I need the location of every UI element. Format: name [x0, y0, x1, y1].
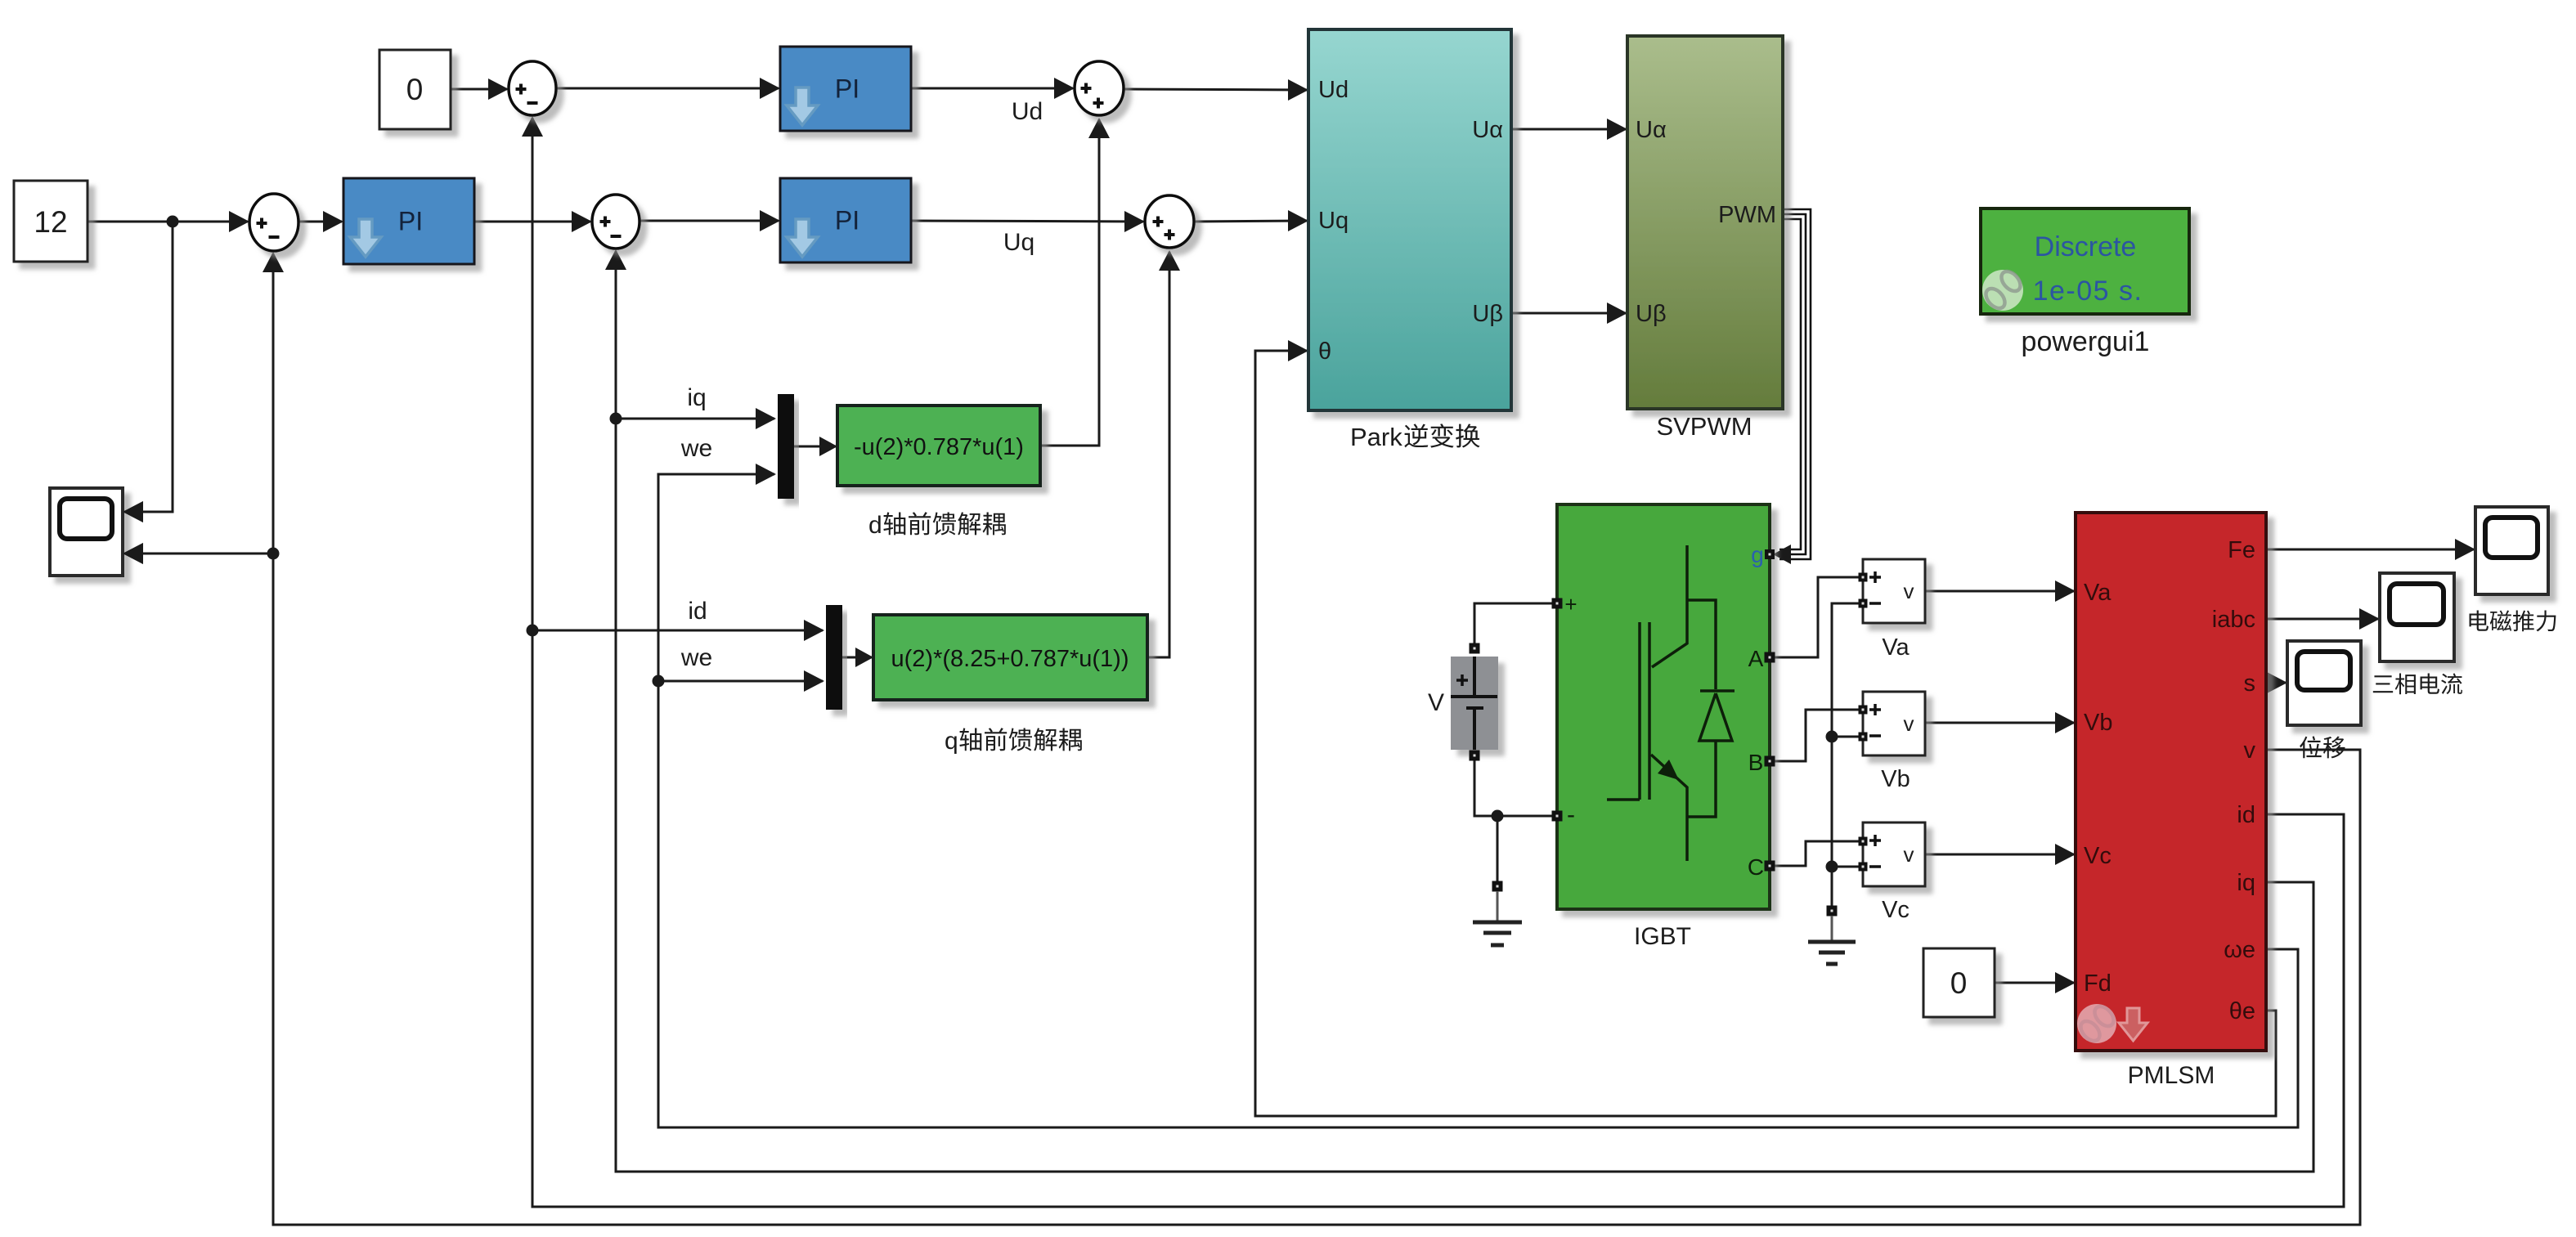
svg-text:Vb: Vb [2084, 710, 2112, 736]
wire: reference to scope input 1 [124, 222, 173, 512]
port IGBT plus [1552, 598, 1563, 609]
wire: IGBT phase C to Vc plus [1770, 841, 1860, 866]
port battery plus [1470, 643, 1480, 654]
svg-text:ωe: ωe [2224, 937, 2255, 963]
wire: Vb output to PMLSM Vb [1925, 722, 2074, 724]
svg-text:q: q [945, 728, 958, 755]
svg-text:v: v [1904, 711, 1914, 736]
scope three-phase current [2380, 573, 2454, 661]
constant block 0 (id reference) [379, 50, 451, 129]
powergui block [1981, 208, 2189, 314]
svg-text:iq: iq [2237, 870, 2255, 896]
wire: q-decoupling Fcn to sum Uq [1147, 252, 1169, 657]
sum iq loop [592, 195, 640, 249]
PMLSM motor block [2076, 513, 2266, 1051]
voltage measurement Va [1863, 559, 1925, 623]
svg-text:0: 0 [1950, 966, 1968, 1000]
wire: Vc output to PMLSM Vc [1925, 854, 2074, 856]
wire: PMLSM Fe to scope [2266, 549, 2474, 551]
wire: v speed feedback loop [273, 253, 2360, 1225]
port Vb plus [1859, 706, 1868, 715]
svg-text:A: A [1748, 646, 1764, 671]
svg-text:Vc: Vc [2084, 843, 2112, 869]
node: junction rail at Vb minus [1826, 731, 1838, 743]
label displacement scope [2300, 736, 2345, 758]
wire: sum Uq to Park Uq input [1194, 221, 1307, 222]
wire: id to mux M2 input 1 [532, 630, 823, 632]
DC voltage source V [1451, 657, 1498, 750]
wire: rail to Vb minus [1832, 736, 1860, 738]
node: junction rail at Vc minus [1826, 861, 1838, 873]
sum Ud (decoupling add) [1075, 61, 1124, 115]
svg-text:V: V [1428, 689, 1444, 716]
svg-text:1e-05 s.: 1e-05 s. [2033, 276, 2143, 307]
PI controller d-axis [780, 47, 911, 131]
svg-text:Uβ: Uβ [1636, 301, 1667, 327]
wire: mux M1 to d-decoupling Fcn [794, 446, 836, 448]
wire: Park Ualpha to SVPWM [1511, 128, 1626, 131]
svg-text:0: 0 [406, 73, 424, 106]
sum Uq (decoupling add) [1145, 195, 1194, 248]
svg-text:g: g [1751, 542, 1764, 567]
port Vc minus [1859, 863, 1868, 872]
ground G1 (battery) [1492, 881, 1503, 892]
svg-text:Uq: Uq [1318, 208, 1349, 234]
svg-text:θe: θe [2229, 998, 2255, 1024]
svg-text:iabc: iabc [2212, 607, 2255, 633]
svg-text:12: 12 [34, 205, 67, 239]
wire: we feedback loop [658, 474, 2298, 1127]
wire: speed sum to PI speed [298, 221, 342, 223]
svg-text:Fe: Fe [2228, 537, 2255, 563]
ground G2 (measurement rail) [1827, 906, 1838, 917]
port Va plus [1859, 573, 1868, 582]
PI controller speed [343, 178, 474, 264]
svg-text:Uβ: Uβ [1472, 301, 1503, 327]
subsystem Park inverse transform [1308, 29, 1511, 410]
voltage measurement Vc [1863, 822, 1925, 886]
wire: PWM bus SVPWM to IGBT gate [1779, 209, 1811, 559]
svg-text:Discrete: Discrete [2035, 231, 2137, 262]
wire: Va minus to measurement ground rail [1832, 603, 1860, 908]
svg-text:SVPWM: SVPWM [1656, 412, 1752, 441]
Fcn block d-axis decoupling [837, 406, 1040, 486]
svg-text:Va: Va [1882, 634, 1910, 661]
wire: sum iq to PI q-axis [640, 220, 779, 222]
node: junction on reference wire [167, 216, 179, 228]
svg-text:we: we [680, 435, 712, 462]
svg-text:Vb: Vb [1881, 766, 1910, 792]
svg-text:d: d [868, 512, 882, 539]
mux M2 (id,we) [826, 605, 842, 710]
wire: constant 12 to speed sum [88, 221, 248, 223]
svg-text:C: C [1748, 854, 1764, 880]
svg-text:+: + [1564, 592, 1577, 616]
wire: Va output to PMLSM Va [1925, 590, 2074, 593]
scope speed (left) [50, 488, 123, 576]
label three-phase current scope [2373, 673, 2462, 694]
wire: sum U1 to PI d-axis [556, 87, 779, 90]
wire: rail to Vc minus [1832, 866, 1860, 868]
port Va minus [1859, 599, 1868, 608]
svg-text:PI: PI [398, 207, 423, 236]
svg-text:Ud: Ud [1318, 77, 1349, 103]
node: junction battery minus to ground [1492, 810, 1504, 822]
port Vb minus [1859, 733, 1868, 742]
svg-text:Fd: Fd [2084, 970, 2112, 997]
svg-text:we: we [680, 644, 712, 671]
svg-text:B: B [1748, 750, 1764, 775]
subsystem SVPWM [1627, 36, 1783, 409]
node: junction v feedback to scope [267, 548, 280, 560]
svg-text:θ: θ [1318, 338, 1331, 365]
svg-text:iq: iq [687, 384, 706, 411]
svg-text:id: id [2237, 802, 2255, 828]
label electromagnetic force scope [2470, 610, 2556, 631]
port IGBT g [1765, 549, 1775, 559]
port IGBT A [1765, 652, 1775, 663]
svg-text:Ud: Ud [1012, 98, 1043, 125]
wire: Park Ubeta to SVPWM [1511, 312, 1626, 315]
svg-text:v: v [1904, 842, 1914, 867]
wire: constant 0 to PMLSM Fd [1995, 982, 2074, 984]
svg-text:v: v [1904, 579, 1914, 603]
wire: d-decoupling Fcn to sum Ud [1040, 119, 1099, 446]
wire: PMLSM iabc to scope [2266, 618, 2378, 621]
PI controller q-axis [780, 178, 911, 262]
wire: sum Ud to Park Ud input [1124, 89, 1307, 90]
wire: battery plus to IGBT plus [1474, 603, 1554, 646]
IGBT internal symbol [1607, 545, 1735, 861]
port IGBT B [1765, 756, 1775, 767]
svg-text:Uα: Uα [1472, 117, 1503, 143]
svg-text:u(2)*(8.25+0.787*u(1)): u(2)*(8.25+0.787*u(1)) [891, 646, 1129, 672]
wire: PI q-axis to sum Uq, net Uq [911, 221, 1143, 222]
svg-text:IGBT: IGBT [1634, 923, 1691, 950]
svg-text:Park: Park [1350, 423, 1402, 451]
scope displacement [2287, 641, 2361, 725]
svg-text:PI: PI [835, 74, 859, 104]
node: junction we to mux M2 [653, 675, 665, 688]
svg-text:Uq: Uq [1003, 229, 1034, 256]
wire: mux M2 to q-decoupling Fcn [842, 657, 872, 659]
voltage measurement Vb [1863, 692, 1925, 755]
wire: IGBT phase B to Vb plus [1770, 710, 1860, 761]
svg-text:PMLSM: PMLSM [2128, 1062, 2215, 1089]
wire: constant 0 to sum junction U1 [451, 88, 507, 91]
wire: iq feedback loop [616, 251, 2313, 1172]
node: junction id to mux M2 [527, 625, 539, 637]
svg-text:id: id [688, 598, 707, 625]
port IGBT minus [1552, 811, 1563, 822]
port battery minus [1470, 751, 1480, 761]
svg-text:v: v [2244, 737, 2256, 764]
svg-text:Uα: Uα [1636, 117, 1667, 143]
wire: theta-e feedback to Park [1255, 351, 2276, 1116]
svg-text:-: - [1567, 801, 1575, 828]
wire: PMLSM s to scope [2266, 682, 2286, 684]
wire: iq to mux M1 input 1 [616, 418, 774, 420]
wire: v feedback to scope input 2 [124, 553, 273, 555]
scope electromagnetic force [2475, 507, 2548, 594]
constant block 12 (speed reference) [14, 181, 88, 262]
Fcn block q-axis decoupling [873, 615, 1147, 700]
svg-text:s: s [2244, 670, 2256, 697]
wire: id feedback loop [532, 118, 2344, 1207]
svg-text:Vc: Vc [1882, 897, 1910, 923]
svg-text:powergui1: powergui1 [2022, 326, 2150, 357]
IGBT inverter block [1557, 504, 1770, 909]
wire: junction down to ground G1 [1497, 816, 1499, 883]
PMLSM corner icons [2077, 1004, 2116, 1043]
mux M1 (iq,we) [778, 394, 794, 499]
svg-text:Va: Va [2084, 580, 2112, 606]
port Vc plus [1859, 837, 1868, 846]
svg-text:PI: PI [835, 206, 859, 235]
wire: PI speed to sum iq [474, 221, 590, 223]
sum U1 (id loop) [509, 61, 556, 115]
constant block 0 (Fd) [1923, 948, 1995, 1017]
wire: battery minus to IGBT minus [1474, 753, 1554, 816]
port IGBT C [1765, 861, 1775, 872]
svg-text:PWM: PWM [1718, 202, 1776, 228]
wire: PI d-axis to sum Ud, net Ud [911, 87, 1073, 90]
svg-text:-u(2)*0.787*u(1): -u(2)*0.787*u(1) [854, 434, 1024, 460]
wire: we to mux M2 input 2 [658, 680, 823, 683]
node: junction iq to mux M1 [610, 413, 622, 425]
sum speed loop [249, 194, 298, 251]
wire: IGBT phase A to Va plus [1770, 577, 1860, 657]
